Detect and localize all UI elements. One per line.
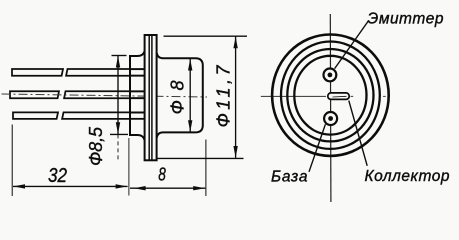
leader line collector (349, 101, 367, 166)
dimension phi 11.7 extension top (164, 35, 248, 37)
dimension phi 8.5 line (110, 56, 128, 162)
dimension phi 11.7 extension bottom (157, 157, 244, 159)
lead 3 (base) left segment (13, 112, 58, 119)
collector tab (328, 93, 349, 100)
outer circle (flange) (272, 34, 389, 155)
svg-text:База: База (271, 169, 308, 186)
dimension phi 8 line (189, 59, 191, 133)
leader line base (309, 124, 325, 172)
flange inner line a (148, 35, 150, 160)
lead 2 (collector) left segment (10, 91, 59, 98)
lead 1 (emitter) right segment (66, 69, 145, 76)
dimension 8 extension right (body edge) (205, 140, 207, 197)
leader line emitter (335, 21, 369, 69)
lead 3 (base) right segment (62, 112, 145, 119)
circle ring 3 (287, 49, 373, 141)
flange disc (145, 35, 157, 160)
svg-text:Ф8,5: Ф8,5 (86, 126, 106, 166)
bottom view: vertical centerline (329, 14, 332, 202)
bottom view: horizontal centerline (261, 95, 326, 97)
svg-text:Эмиттер: Эмиттер (368, 11, 444, 28)
can body (157, 53, 203, 138)
dimension 32 line (13, 185, 128, 187)
dimension 8 line (130, 187, 205, 189)
header (hat section, left face) (130, 51, 145, 141)
package centerline (side view axis) (2, 94, 208, 97)
svg-text:32: 32 (48, 165, 67, 187)
flange inner line b (151, 35, 153, 160)
emitter pin (324, 69, 337, 82)
base pin (324, 112, 337, 125)
svg-text:8: 8 (158, 164, 166, 185)
dimension 32 extension left (11, 125, 13, 197)
svg-text:Коллектор: Коллектор (365, 168, 450, 185)
lead 2 (collector) right segment (64, 91, 145, 98)
lead 1 (emitter) left segment (12, 69, 63, 76)
centerline dash right (383, 95, 386, 97)
svg-text:Ф11,7: Ф11,7 (213, 65, 233, 128)
circle ring 2 (281, 41, 380, 148)
dimension 32 extension right (header face) (128, 138, 130, 196)
dimension phi 11.7 line (235, 36, 237, 157)
circle ring 4 (can) (294, 56, 366, 135)
lead lines through header (130, 69, 145, 118)
